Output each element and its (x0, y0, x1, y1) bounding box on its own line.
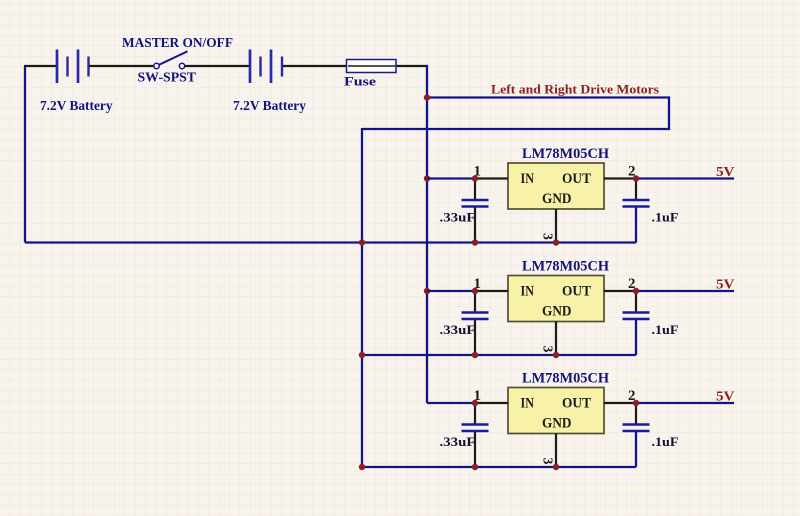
junction ground bus rail (359, 464, 365, 470)
net label 5V (716, 278, 735, 293)
fuse F1 (346, 60, 396, 73)
junction ground bus rail (359, 352, 365, 358)
U1 pin number 2 (628, 164, 636, 180)
svg-text:LM78M05CH: LM78M05CH (522, 146, 610, 162)
junction output cap top (633, 175, 639, 181)
wire (427, 402, 475, 404)
svg-text:LM78M05CH: LM78M05CH (522, 259, 610, 275)
svg-text:.1uF: .1uF (652, 211, 679, 225)
switch SW1 SW-SPST (154, 51, 188, 68)
junction motor tap (424, 94, 430, 100)
wire ground rail (362, 354, 636, 356)
wire 5V output (636, 402, 734, 404)
F1 label Fuse (344, 74, 376, 89)
capacitor C1 .33uF input (462, 179, 489, 243)
wire main vertical bus (426, 65, 428, 403)
svg-text:7.2V Battery: 7.2V Battery (233, 99, 306, 114)
wire BT1 to switch (89, 65, 154, 67)
SW1 label MASTER ON/OFF (122, 35, 233, 50)
junction regulator 1 input (424, 175, 430, 181)
svg-text:LM78M05CH: LM78M05CH (522, 371, 610, 387)
svg-text:IN: IN (521, 396, 535, 412)
svg-text:OUT: OUT (562, 396, 591, 412)
junction input cap top (472, 288, 478, 294)
C5 value label .33uF (440, 435, 476, 449)
SW1 label SW-SPST (138, 71, 197, 86)
svg-text:OUT: OUT (562, 284, 591, 300)
junction input cap bottom (472, 464, 478, 470)
U2 pin number 2 (628, 276, 636, 292)
C6 value label .1uF (652, 435, 679, 449)
capacitor C3 .33uF input (462, 291, 489, 355)
svg-text:3: 3 (541, 346, 556, 353)
capacitor C4 .1uF output (623, 291, 650, 355)
junction gnd pin rail (553, 464, 559, 470)
wire motor supply branch (362, 98, 669, 130)
svg-text:GND: GND (542, 191, 572, 207)
C1 value label .33uF (440, 211, 476, 225)
svg-text:3: 3 (541, 233, 556, 240)
U3 designator label LM78M05CH (522, 371, 610, 387)
wire ground rail (362, 466, 636, 468)
svg-text:5V: 5V (716, 165, 735, 180)
U1 pin number 3 (541, 233, 556, 240)
voltage regulator U2 LM78M05CH (475, 276, 636, 356)
svg-text:IN: IN (521, 284, 535, 300)
battery BT1 7.2V (57, 50, 89, 84)
U3 pin number 2 (628, 388, 636, 404)
C2 value label .1uF (652, 211, 679, 225)
svg-text:Left and Right Drive Motors: Left and Right Drive Motors (491, 82, 659, 97)
junction ground bus rail (359, 239, 365, 245)
junction input cap bottom (472, 239, 478, 245)
U1 pin label OUT (562, 171, 591, 187)
junction input cap top (472, 175, 478, 181)
svg-text:.1uF: .1uF (652, 323, 679, 337)
svg-text:IN: IN (521, 171, 535, 187)
svg-text:.33uF: .33uF (440, 323, 476, 337)
wire fuse to corner (396, 65, 428, 67)
wire ground bus vertical (361, 128, 363, 467)
BT2 label 7.2V Battery (233, 99, 306, 114)
U2 pin label OUT (562, 284, 591, 300)
svg-text:.1uF: .1uF (652, 435, 679, 449)
capacitor C5 .33uF input (462, 403, 489, 467)
net label Left and Right Drive Motors (491, 82, 659, 97)
wire pin battery BT1 left (24, 65, 57, 67)
net label 5V (716, 165, 735, 180)
wire battery loop left vertical (24, 66, 26, 243)
junction output cap top (633, 400, 639, 406)
junction gnd pin rail (553, 352, 559, 358)
wire 5V output (636, 290, 734, 292)
U3 pin number 1 (474, 388, 482, 404)
svg-text:GND: GND (542, 304, 572, 320)
voltage regulator U3 LM78M05CH (475, 388, 636, 468)
capacitor C2 .1uF output (623, 179, 650, 243)
U3 pin label GND (542, 416, 572, 432)
junction output cap top (633, 288, 639, 294)
U3 pin number 3 (541, 458, 556, 465)
voltage regulator U1 LM78M05CH (475, 163, 636, 243)
wire switch to battery BT2 (185, 65, 251, 67)
U3 pin label OUT (562, 396, 591, 412)
svg-text:5V: 5V (716, 278, 735, 293)
U1 designator label LM78M05CH (522, 146, 610, 162)
svg-text:Fuse: Fuse (344, 74, 376, 89)
svg-text:.33uF: .33uF (440, 435, 476, 449)
U1 pin label IN (521, 171, 535, 187)
svg-text:OUT: OUT (562, 171, 591, 187)
capacitor C6 .1uF output (623, 403, 650, 467)
wire ground rail (25, 241, 636, 243)
BT1 label 7.2V Battery (40, 99, 113, 114)
wire (427, 177, 475, 179)
junction gnd pin rail (553, 239, 559, 245)
junction input cap bottom (472, 352, 478, 358)
wire BT2 to fuse (283, 65, 346, 67)
U1 pin number 1 (474, 164, 482, 180)
wire 5V output (636, 177, 734, 179)
junction regulator 2 input (424, 288, 430, 294)
U2 designator label LM78M05CH (522, 259, 610, 275)
wire (427, 290, 475, 292)
battery BT2 7.2V (250, 50, 282, 84)
svg-text:MASTER ON/OFF: MASTER ON/OFF (122, 35, 233, 50)
C4 value label .1uF (652, 323, 679, 337)
junction input cap top (472, 400, 478, 406)
svg-text:5V: 5V (716, 390, 735, 405)
svg-text:.33uF: .33uF (440, 211, 476, 225)
U1 pin label GND (542, 191, 572, 207)
svg-text:7.2V Battery: 7.2V Battery (40, 99, 113, 114)
net label 5V (716, 390, 735, 405)
svg-text:3: 3 (541, 458, 556, 465)
C3 value label .33uF (440, 323, 476, 337)
U2 pin number 1 (474, 276, 482, 292)
U3 pin label IN (521, 396, 535, 412)
U2 pin label IN (521, 284, 535, 300)
svg-text:GND: GND (542, 416, 572, 432)
U2 pin label GND (542, 304, 572, 320)
U2 pin number 3 (541, 346, 556, 353)
svg-text:SW-SPST: SW-SPST (138, 71, 197, 86)
